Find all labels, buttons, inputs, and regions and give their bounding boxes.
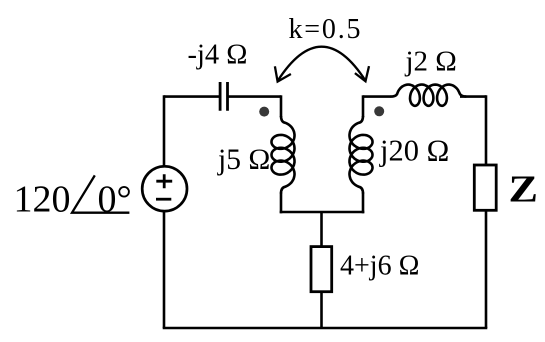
capacitor C1 -j4 ohm plates bbox=[220, 82, 227, 111]
svg-text:j2 Ω: j2 Ω bbox=[405, 46, 457, 78]
dot right coil bbox=[374, 106, 384, 116]
wire right coil top stub bbox=[362, 95, 365, 117]
svg-text:j5 Ω: j5 Ω bbox=[217, 144, 270, 176]
source plus sign bbox=[156, 174, 172, 188]
dot left coil bbox=[259, 107, 269, 117]
wire left coil bottom stub bbox=[280, 193, 283, 214]
inductor L1 j5 ohm coil bbox=[272, 116, 295, 193]
svg-text:0°: 0° bbox=[98, 179, 132, 221]
inductor L2 j20 ohm coil bbox=[350, 116, 373, 193]
wire coil bottom rail bbox=[280, 211, 365, 214]
svg-text:120: 120 bbox=[14, 179, 71, 221]
wire j2 to top-right corner bbox=[460, 95, 486, 98]
coupling arrow right head bbox=[355, 66, 369, 81]
coupling arrow left head bbox=[275, 66, 291, 81]
wire capacitor to left coil bbox=[228, 95, 282, 98]
wire left vertical upper bbox=[163, 95, 166, 166]
svg-text:Z: Z bbox=[509, 169, 539, 211]
wire left coil top stub bbox=[280, 95, 283, 117]
impedance Z box bbox=[474, 165, 496, 210]
wire bottom rail bbox=[163, 327, 488, 330]
wire top-left horizontal bbox=[164, 95, 220, 98]
angle symbol bbox=[72, 175, 129, 212]
svg-text:k=0.5: k=0.5 bbox=[289, 14, 363, 45]
wire center stem lower bbox=[320, 292, 323, 328]
wire left vertical lower bbox=[163, 211, 166, 328]
resistor 4+j6 ohm box bbox=[311, 247, 332, 292]
wire center stem upper bbox=[320, 212, 323, 247]
source minus sign bbox=[156, 198, 171, 201]
wire right vertical lower bbox=[485, 210, 488, 328]
wire right vertical upper bbox=[485, 95, 488, 165]
inductor L3 j2 ohm coil bbox=[391, 85, 467, 106]
svg-text:-j4 Ω: -j4 Ω bbox=[188, 39, 248, 70]
source V1 circle bbox=[142, 166, 187, 211]
svg-text:j20 Ω: j20 Ω bbox=[379, 134, 449, 168]
wire right coil to j2 bbox=[363, 95, 391, 98]
wire right coil bottom stub bbox=[362, 193, 365, 214]
coupling arrow arc bbox=[278, 47, 366, 81]
svg-text:4+j6 Ω: 4+j6 Ω bbox=[340, 251, 419, 282]
